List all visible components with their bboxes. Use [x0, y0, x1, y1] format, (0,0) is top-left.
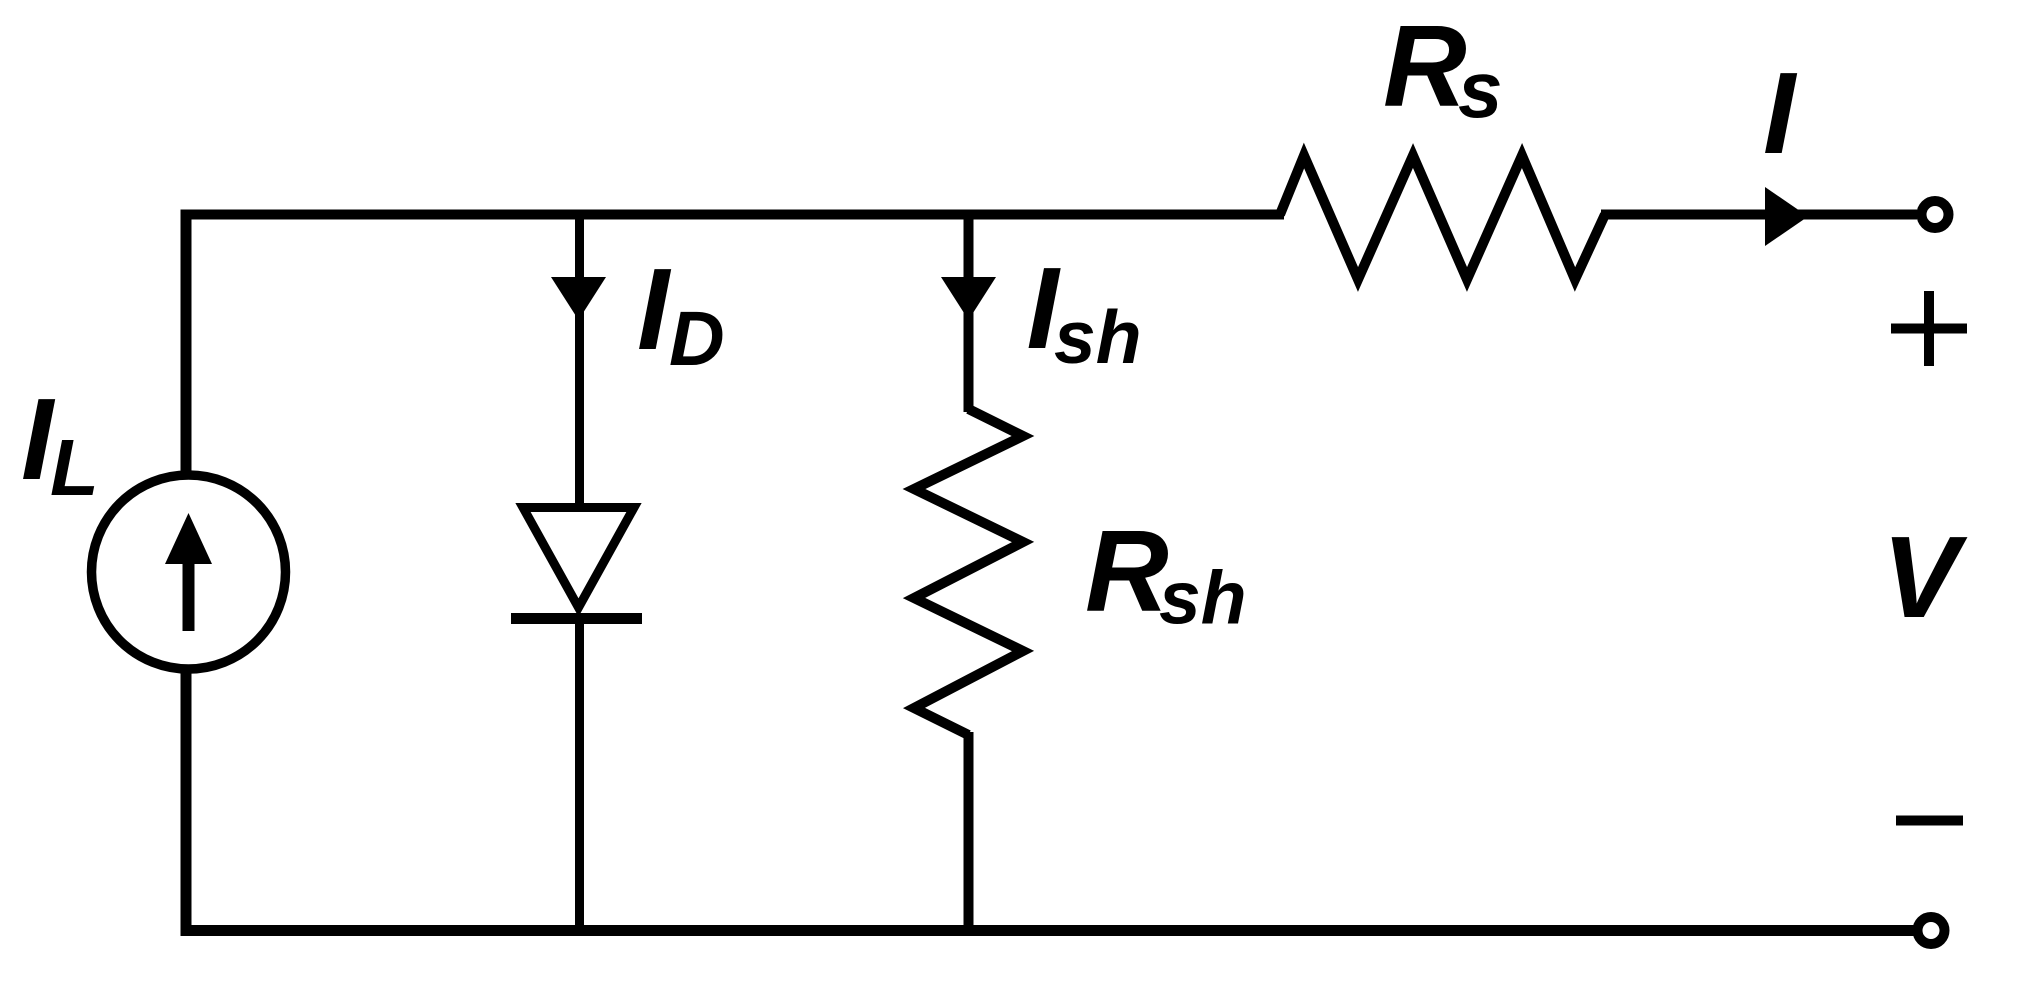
- svg-text:D: D: [669, 296, 725, 382]
- svg-text:I: I: [1763, 48, 1798, 178]
- wire output: [1601, 210, 1917, 220]
- svg-text:V: V: [1882, 512, 1968, 642]
- current arrow Ish: [941, 277, 996, 320]
- label Rsh: [1085, 506, 1247, 640]
- svg-text:R: R: [1085, 506, 1169, 636]
- terminal bottom: [1918, 917, 1945, 944]
- label plus: [1891, 291, 1967, 366]
- resistor Rs: [1280, 156, 1605, 280]
- wire diode branch lower: [575, 618, 584, 936]
- label Ish: [1027, 243, 1142, 379]
- resistor Rsh: [914, 409, 1023, 735]
- svg-text:I: I: [637, 244, 672, 374]
- wire shunt branch upper: [964, 210, 974, 413]
- label IL: [21, 374, 99, 512]
- label Rs: [1383, 1, 1503, 134]
- wire diode branch upper: [575, 210, 584, 508]
- label minus: [1896, 816, 1963, 826]
- diode D1: [511, 508, 642, 619]
- terminal top: [1922, 201, 1949, 228]
- wire bottom rail: [181, 925, 1922, 936]
- current source IL: [92, 475, 286, 669]
- svg-text:sh: sh: [1054, 295, 1142, 379]
- wire top rail: [186, 210, 1284, 220]
- current arrow I: [1765, 187, 1808, 246]
- wire left vertical upper: [181, 210, 192, 475]
- wire left vertical lower: [181, 668, 192, 936]
- current arrow ID: [551, 277, 606, 320]
- svg-text:L: L: [50, 423, 99, 512]
- svg-text:s: s: [1458, 45, 1503, 134]
- svg-text:R: R: [1383, 1, 1467, 131]
- label ID: [637, 244, 725, 382]
- wire shunt branch lower: [964, 732, 974, 936]
- svg-text:sh: sh: [1159, 556, 1247, 640]
